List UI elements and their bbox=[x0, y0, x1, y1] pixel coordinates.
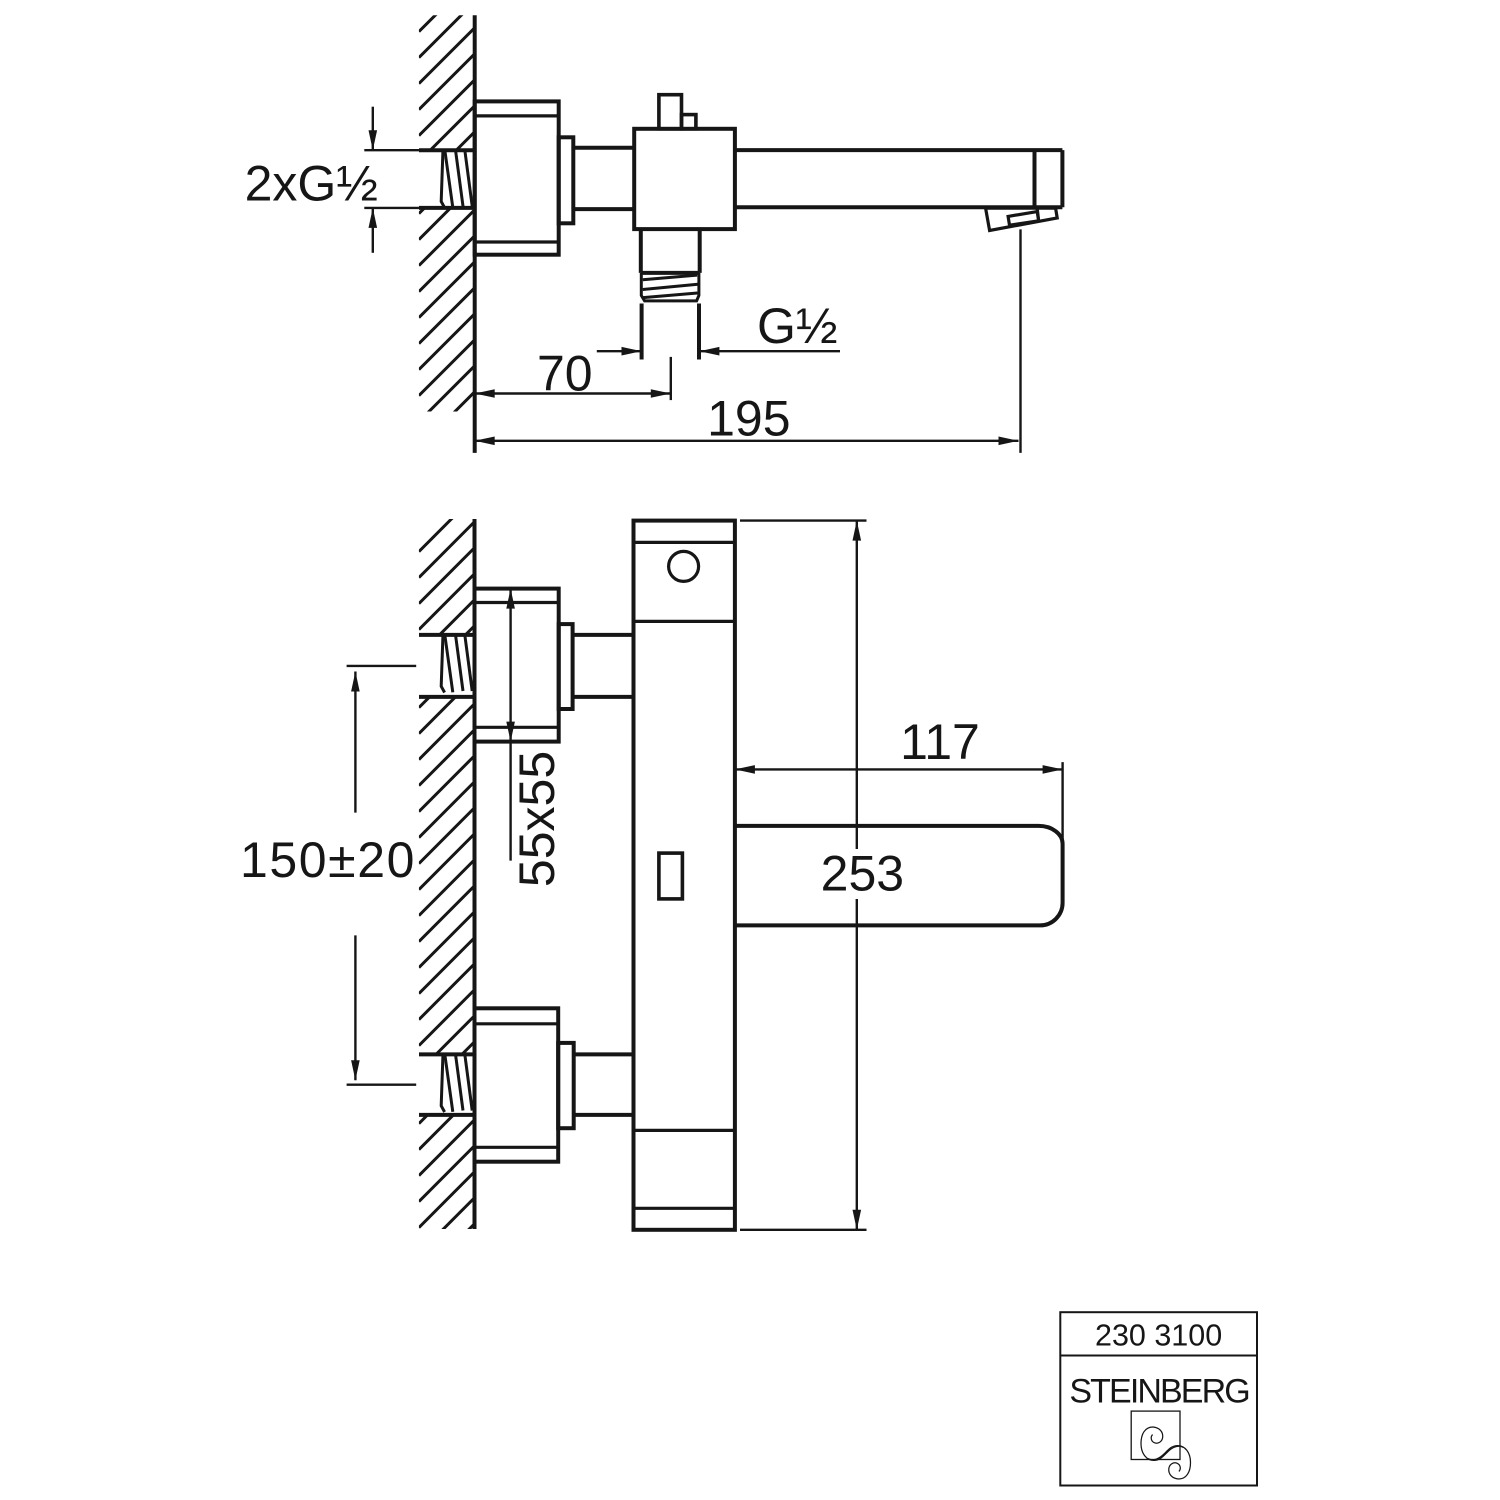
wall pipe thread lower lower view bbox=[441, 1055, 472, 1112]
logo S swirl bbox=[1141, 1427, 1191, 1479]
svg-text:117: 117 bbox=[900, 714, 980, 770]
svg-text:70: 70 bbox=[537, 345, 593, 401]
escutcheon top view bbox=[475, 101, 559, 254]
wall pipe thread upper lower view bbox=[441, 636, 472, 693]
dimension 2xG1/2 bbox=[372, 107, 374, 253]
wall pipe thread top view bbox=[441, 151, 472, 208]
wall hole edges top view bbox=[364, 150, 474, 208]
svg-text:195: 195 bbox=[707, 391, 790, 447]
svg-text:253: 253 bbox=[821, 846, 904, 902]
spout top view bbox=[735, 150, 1063, 207]
svg-text:STEINBERG: STEINBERG bbox=[1069, 1373, 1248, 1411]
display window lower view bbox=[659, 853, 683, 899]
connecting pipe top view bbox=[573, 148, 634, 209]
upper pipe lower view bbox=[573, 635, 634, 697]
dimension 150 +/- 20 bbox=[347, 666, 417, 1085]
spout lower view bbox=[735, 826, 1063, 926]
dimension 70 bbox=[475, 357, 671, 400]
flange top view bbox=[559, 137, 574, 223]
upper escutcheon lower view bbox=[475, 589, 559, 742]
svg-text:G½: G½ bbox=[757, 298, 838, 354]
wall line top view bbox=[473, 15, 477, 453]
vertical pipe below valve top view bbox=[641, 229, 700, 273]
vertical pipe lower section top view bbox=[642, 304, 699, 360]
wall line lower view bbox=[473, 519, 477, 1229]
faucet body lower view bbox=[634, 521, 735, 1230]
lower escutcheon lower view bbox=[475, 1008, 559, 1161]
lower pipe lower view bbox=[574, 1054, 634, 1115]
svg-text:2xG½: 2xG½ bbox=[245, 155, 378, 211]
dimension 195 bbox=[475, 229, 1021, 453]
svg-text:230 3100: 230 3100 bbox=[1095, 1318, 1222, 1352]
dimension 117 bbox=[735, 762, 1063, 848]
logo square bbox=[1131, 1411, 1180, 1459]
dimension 253 bbox=[740, 521, 867, 1230]
aerator top view bbox=[986, 208, 1058, 230]
handle top view bbox=[659, 95, 696, 129]
lower flange lower view bbox=[558, 1043, 574, 1128]
svg-text:150±20: 150±20 bbox=[240, 832, 416, 888]
dimension 55x55 bbox=[509, 590, 511, 861]
upper flange lower view bbox=[559, 624, 573, 709]
dimension G1/2 top view bbox=[597, 350, 840, 352]
wall hole edges lower view bbox=[419, 635, 475, 1115]
valve body top view bbox=[634, 129, 735, 229]
pilot circle lower view bbox=[669, 551, 699, 581]
logo box bbox=[1060, 1312, 1257, 1485]
svg-text:55x55: 55x55 bbox=[509, 751, 565, 887]
vertical pipe thread top view bbox=[641, 273, 699, 301]
